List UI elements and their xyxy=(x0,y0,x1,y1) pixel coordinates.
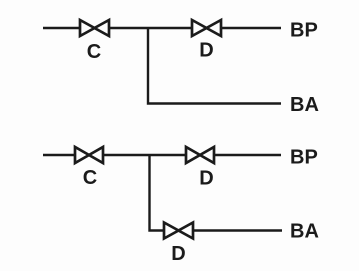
valve D xyxy=(186,147,214,163)
svg-text:D: D xyxy=(199,167,213,189)
svg-text:BP: BP xyxy=(290,19,318,41)
valve C xyxy=(80,20,109,36)
wire xyxy=(193,229,282,231)
wire xyxy=(43,154,75,156)
wire xyxy=(221,27,281,29)
svg-text:C: C xyxy=(87,41,101,63)
svg-text:D: D xyxy=(199,39,213,61)
wire xyxy=(43,27,80,29)
wire xyxy=(214,154,281,156)
svg-text:BA: BA xyxy=(290,94,319,116)
svg-text:D: D xyxy=(171,243,185,265)
wire xyxy=(103,154,186,156)
wire xyxy=(109,27,192,29)
svg-text:BP: BP xyxy=(290,147,318,169)
svg-text:BA: BA xyxy=(290,221,319,243)
valve D xyxy=(164,223,193,239)
svg-text:C: C xyxy=(83,167,97,189)
wire xyxy=(148,28,281,104)
valve C xyxy=(75,147,103,163)
valve D xyxy=(192,20,221,36)
wire xyxy=(150,155,165,231)
